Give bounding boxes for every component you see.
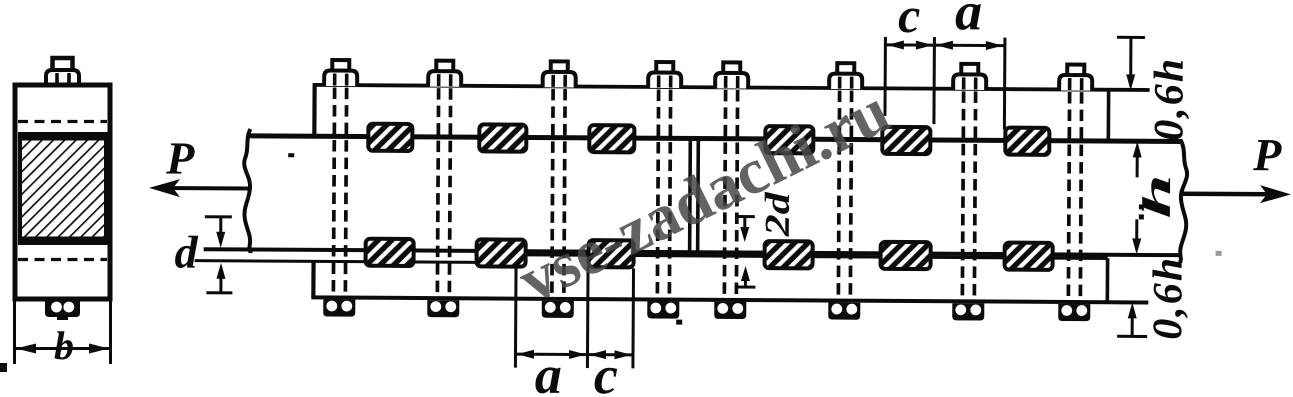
bolt at x=444 bbox=[427, 61, 462, 318]
svg-text:b: b bbox=[54, 323, 74, 368]
dimension 2d (middle) bbox=[736, 216, 755, 287]
key bottom 477 bbox=[477, 239, 526, 266]
key bottom 881 bbox=[881, 242, 931, 269]
right side dimensions 0,6h / h / 0,6h bbox=[1115, 37, 1149, 336]
svg-text:a: a bbox=[955, 0, 982, 41]
key top 589 bbox=[589, 125, 634, 152]
bottom plank top edge bbox=[195, 261, 478, 263]
bottom plank bottom edge bbox=[311, 297, 1148, 302]
top dimensions c and a bbox=[885, 37, 1005, 130]
bolt nut (bottom, section view) bbox=[45, 301, 80, 320]
key top 1005 bbox=[1005, 128, 1049, 155]
keys bbox=[366, 124, 1054, 270]
bolt at x=731 bbox=[714, 62, 749, 319]
key bottom 1005 bbox=[1005, 243, 1053, 270]
svg-text:d: d bbox=[174, 227, 198, 278]
beam right broken edge bbox=[1180, 140, 1188, 264]
svg-text:c: c bbox=[594, 345, 618, 397]
key top 479 bbox=[479, 124, 526, 151]
bolt at x=1075 bbox=[1058, 64, 1093, 321]
dimension b bbox=[15, 294, 111, 364]
bolt at x=558.5 bbox=[541, 61, 576, 318]
bolt at x=969 bbox=[952, 64, 987, 321]
merged thick part right bbox=[475, 254, 1108, 258]
bolt at x=340 bbox=[323, 60, 358, 317]
bolts bbox=[323, 60, 1093, 321]
P left bbox=[160, 186, 249, 191]
bolt head (top, section view) bbox=[53, 58, 73, 71]
dashed line lower bbox=[18, 258, 107, 261]
hatched key zone bbox=[20, 134, 106, 243]
key bottom 765 bbox=[765, 241, 813, 268]
bottom dimensions a and c bbox=[515, 266, 633, 369]
top plank bbox=[313, 85, 1150, 90]
beam bottom edge bbox=[204, 249, 1181, 255]
svg-text:c: c bbox=[898, 0, 921, 43]
stray dots bbox=[287, 153, 1144, 327]
svg-text:0,6h: 0,6h bbox=[1146, 57, 1193, 141]
bolt at x=845 bbox=[828, 63, 863, 320]
beam left broken edge bbox=[244, 129, 252, 253]
svg-text:P: P bbox=[1252, 129, 1282, 180]
beam top edge / interface bbox=[246, 136, 1181, 142]
svg-text:P: P bbox=[165, 132, 195, 183]
svg-text:a: a bbox=[535, 345, 562, 397]
key top 368 bbox=[368, 124, 412, 151]
key bottom 589 bbox=[589, 240, 634, 267]
key top 882 bbox=[882, 127, 930, 154]
P right bbox=[1183, 191, 1280, 196]
stray mark bbox=[0, 363, 7, 372]
svg-text:h: h bbox=[1134, 174, 1179, 219]
beam splice butt joint bbox=[688, 139, 692, 253]
svg-text:0,6h: 0,6h bbox=[1145, 256, 1192, 340]
key top 765 bbox=[765, 126, 813, 153]
member outline bbox=[15, 85, 110, 299]
dimension d (left) bbox=[204, 217, 232, 293]
dashed line upper bbox=[18, 120, 107, 123]
key bottom 366 bbox=[366, 239, 414, 266]
bolt at x=664 bbox=[647, 62, 682, 319]
